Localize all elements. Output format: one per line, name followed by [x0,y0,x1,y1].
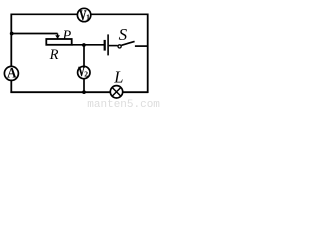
svg-text:P: P [62,28,72,43]
svg-text:S: S [119,25,128,44]
svg-text:1: 1 [86,13,90,22]
wire voltmeter V1 to top-right corner [91,13,149,15]
wire right vertical [147,14,149,94]
wiper arrow P of rheostat [55,34,60,40]
wire battery to switch S [109,45,118,47]
ammeter A [4,66,18,82]
battery positive plate (long thin) [107,34,109,55]
junction bottom wire V2 tap [82,90,86,94]
voltmeter V2 [78,65,90,80]
wire left vertical lower [10,81,12,94]
wire switch S to right vertical [135,45,148,47]
svg-text:L: L [113,67,123,86]
wire left vertical upper [10,14,12,67]
resistor R (rheostat body) [46,39,71,45]
junction on left vertical (rheostat feed tap) [10,32,14,36]
wire rheostat wiper feed [11,33,57,35]
svg-text:manten5.com: manten5.com [87,99,160,109]
wire bottom-left to lamp L [10,91,110,93]
switch S pivot [118,45,121,48]
wire lamp L to bottom-right corner [123,91,149,93]
wire voltmeter V2 to bottom wire [83,79,85,93]
voltmeter V1 [77,8,90,24]
junction voltmeter V2 tap [82,43,86,47]
wire junction down to voltmeter V2 [83,45,85,67]
wire top-left to voltmeter V1 [11,13,78,15]
svg-text:2: 2 [84,70,88,79]
battery negative plate (short thick) [104,40,106,51]
wire resistor R to battery [72,44,104,46]
lamp L [110,86,122,98]
svg-text:A: A [7,66,17,82]
svg-text:R: R [49,47,59,63]
switch S blade [121,41,134,45]
